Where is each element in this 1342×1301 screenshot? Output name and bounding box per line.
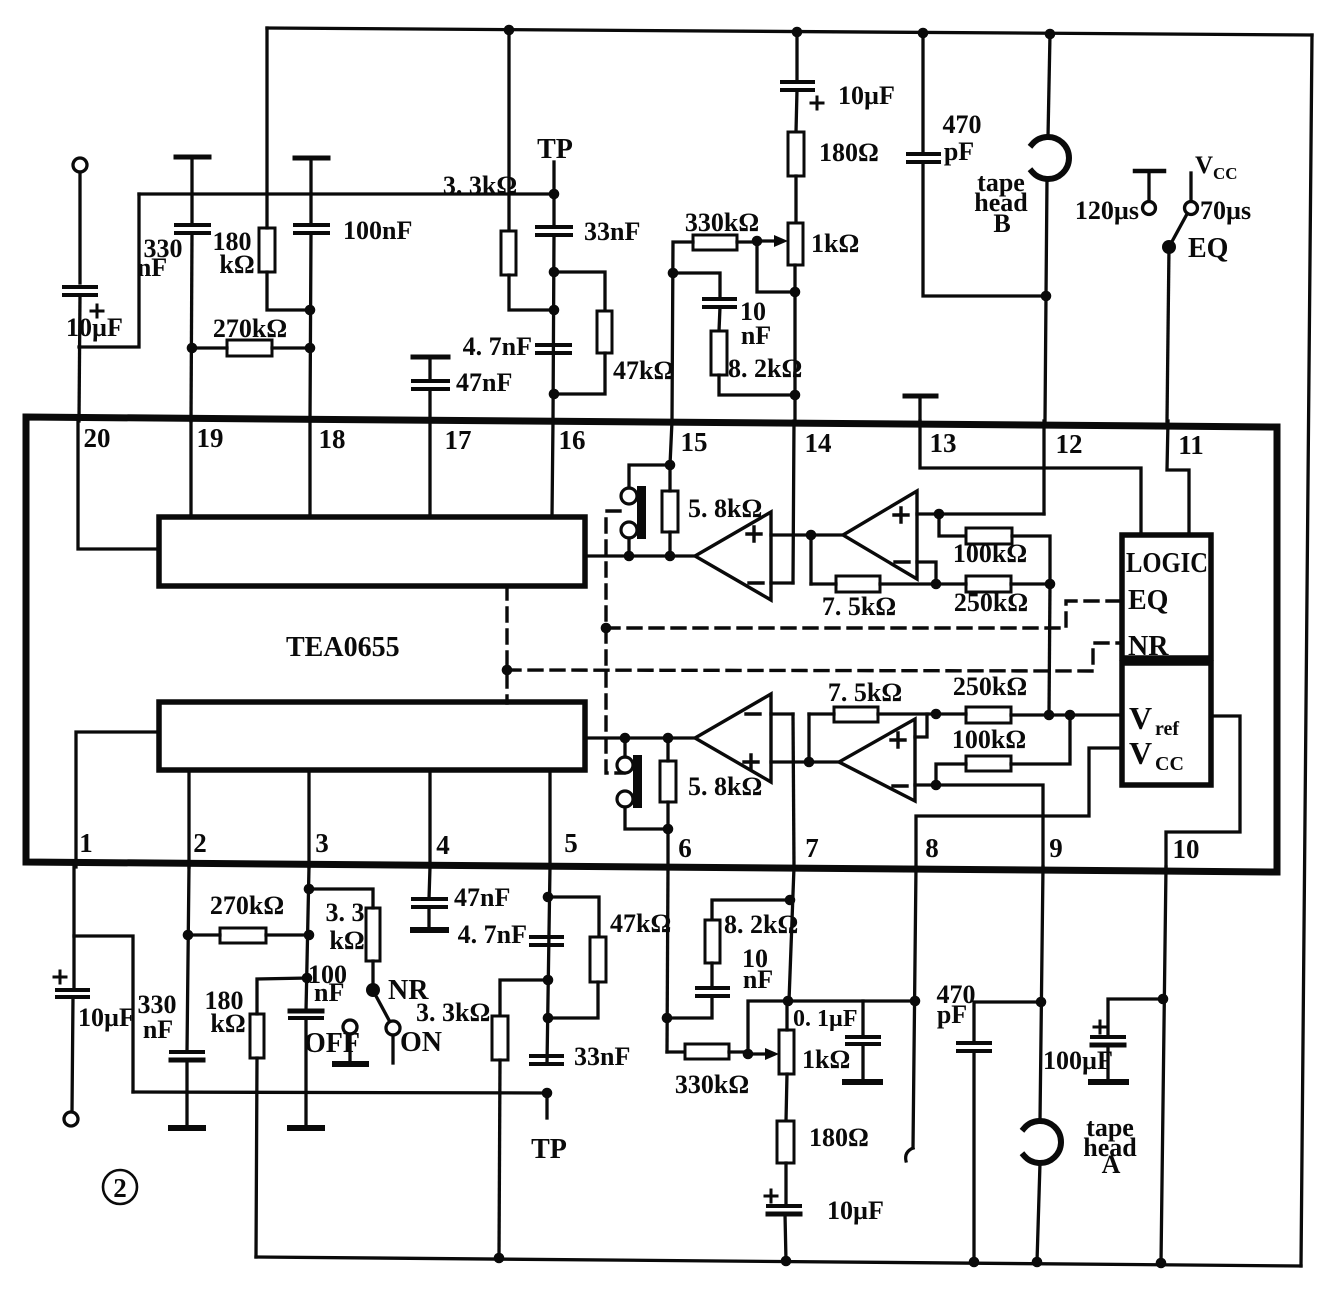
wire pin10 column outside	[1161, 867, 1166, 1263]
node dot switch B on output	[624, 551, 635, 562]
svg-text:270kΩ: 270kΩ	[213, 314, 287, 343]
resistor 3.3kOhm (B)	[501, 231, 516, 275]
capacitor 10nF (A)	[697, 988, 728, 996]
EQ switch arm	[1169, 214, 1187, 247]
switch A contact upper	[617, 757, 633, 773]
wire wiper loop (A)	[748, 1001, 787, 1054]
wire 100k B right lead	[1012, 536, 1050, 584]
label 470pF A	[937, 980, 976, 1029]
wire switch B bottom contact	[627, 538, 630, 556]
wire pin18 column	[310, 233, 311, 421]
wire pin17 column	[428, 389, 431, 421]
node dot EQ bus	[601, 623, 612, 634]
resistor 330kOhm (B)	[693, 235, 737, 250]
wire pin7 internal	[793, 714, 794, 867]
wire pin4 column outside	[429, 867, 430, 899]
resistor 47kOhm (B)	[597, 311, 612, 353]
wire pin14 internal	[793, 421, 794, 583]
resistor 47kOhm (A)	[590, 937, 606, 982]
svg-text:16: 16	[559, 425, 586, 455]
wire 47k A loop bottom	[548, 982, 598, 1018]
tape head B (gapped circle)	[1032, 137, 1069, 179]
node dot pin6/10nF A	[662, 1013, 673, 1024]
op-amp U1 (B output buffer)	[695, 512, 771, 600]
svg-text:B: B	[993, 209, 1010, 238]
svg-text:100µF: 100µF	[1043, 1046, 1113, 1075]
label 180kOhm A	[205, 986, 246, 1038]
svg-text:100kΩ: 100kΩ	[953, 539, 1027, 568]
capacitor 10uF (pin7 bottom)	[765, 1190, 800, 1214]
wire pin13 internal to LOGIC	[920, 421, 1141, 535]
svg-text:kΩ: kΩ	[329, 926, 364, 955]
capacitor 4.7nF (B)	[537, 345, 570, 353]
wire 250k A leads to Vref	[936, 714, 1122, 715]
capacitor 330nF (A)	[171, 1052, 203, 1060]
svg-text:OFF: OFF	[304, 1028, 360, 1059]
wire pin3 column outside	[306, 867, 309, 1011]
wire pin8 internal to Vcc	[916, 748, 1122, 867]
resistor 8.2kOhm (B)	[711, 331, 727, 375]
wire 330k A right lead	[729, 1052, 748, 1054]
node dot rail 470pF A	[969, 1257, 980, 1268]
label 330nF A	[138, 990, 177, 1044]
capacitor 330nF (B)	[176, 225, 209, 233]
wire 7.5k B leads	[811, 582, 936, 585]
wire 100nF A to ground	[304, 1018, 307, 1126]
node dot pin19/270k	[187, 343, 198, 354]
wire 180k top to rail	[265, 28, 268, 228]
capacitor 0.1uF	[847, 1037, 879, 1044]
wire pin7 column outside	[789, 867, 794, 1001]
svg-text:5: 5	[564, 828, 578, 858]
wire pin2 column outside	[187, 867, 189, 1052]
wire 47k A loop top	[548, 897, 599, 937]
svg-text:nF: nF	[743, 965, 773, 994]
input terminal A (open circle)	[64, 1112, 78, 1126]
svg-text:NR: NR	[1128, 631, 1169, 662]
node dot TP rail A	[542, 1088, 553, 1099]
node dot pot top (A)	[783, 996, 794, 1007]
contact circle OFF	[343, 1020, 357, 1034]
wire rail to head B	[1048, 34, 1050, 137]
svg-text:10µF: 10µF	[838, 81, 895, 110]
svg-text:nF: nF	[314, 978, 344, 1007]
svg-text:EQ: EQ	[1188, 233, 1228, 264]
node dot 3.3k A rail	[494, 1253, 505, 1264]
resistor 180Ohm (A)	[777, 1121, 794, 1163]
node dot pin15 branch	[668, 268, 679, 279]
resistor 5.8kOhm (A)	[660, 761, 676, 802]
wire 180ohm A to 10uF A2	[784, 1163, 787, 1206]
resistor 180Ohm (B)	[788, 132, 804, 176]
svg-text:3. 3: 3. 3	[326, 898, 365, 927]
switch B contact upper	[621, 488, 637, 504]
wire EQ pole to pin11	[1167, 247, 1169, 421]
svg-text:250kΩ: 250kΩ	[953, 672, 1027, 701]
ground bar below 0.1uF	[845, 1079, 880, 1085]
resistor 100kOhm (A)	[966, 756, 1011, 771]
contact circle 120us	[1143, 202, 1156, 215]
node dot 7.5k/250k (A)	[931, 709, 942, 720]
input terminal B (open circle)	[73, 158, 87, 172]
label Vref	[1129, 700, 1179, 740]
resistor 5.8kOhm (B)	[662, 491, 678, 532]
wire 3.3k A to bottom rail	[499, 1060, 500, 1258]
capacitor 47nF (A)	[413, 899, 446, 907]
wire pin6 column outside	[667, 867, 668, 1052]
signal block B (top)	[159, 517, 585, 586]
svg-text:7. 5kΩ: 7. 5kΩ	[828, 678, 902, 707]
ground bar below OFF	[335, 1061, 366, 1067]
wire 180k A top lead	[257, 978, 307, 1014]
svg-text:ref: ref	[1155, 718, 1179, 740]
node dot head B bottom	[1041, 291, 1052, 302]
op-amp U2 (B side-chain)	[843, 491, 917, 579]
svg-text:nF: nF	[143, 1015, 173, 1044]
svg-text:18: 18	[319, 424, 346, 454]
wire 0.1uF node line	[787, 999, 915, 1002]
node dot pot bottom (B)	[790, 287, 801, 298]
switch A contact lower	[617, 791, 633, 807]
wire 3.3k NR to pole	[371, 961, 374, 984]
node dot 47k A bottom	[543, 1013, 554, 1024]
node dot feedback rise (A)	[804, 757, 815, 768]
wire head B to pin12	[1045, 179, 1047, 421]
svg-text:4. 7nF: 4. 7nF	[463, 332, 532, 361]
ground bar above pin13	[905, 394, 936, 399]
resistor 8.2kOhm (A)	[705, 920, 720, 963]
wire right border	[1301, 35, 1312, 1266]
wire rail2 (TP-B rail)	[139, 192, 554, 195]
ground bar below 100nF A	[290, 1125, 322, 1131]
wire 8.2k to pin14 node (B)	[719, 375, 795, 395]
node dot pin8/0.1uF line	[910, 996, 921, 1007]
svg-text:47kΩ: 47kΩ	[613, 356, 674, 385]
wire ground to 330nF	[190, 157, 193, 225]
label Vcc (box)	[1129, 735, 1184, 775]
svg-text:13: 13	[930, 428, 957, 458]
svg-text:1kΩ: 1kΩ	[811, 229, 859, 258]
wire 8.2k A branch	[712, 900, 790, 920]
wire U3 plus line to U4 output	[771, 760, 839, 763]
wire 100k A left lead	[936, 764, 966, 785]
svg-text:4: 4	[436, 830, 450, 860]
node dot wiper (A)	[743, 1049, 754, 1060]
capacitor 10uF (input A)	[54, 971, 88, 997]
wire 47k loop bottom (B)	[554, 353, 605, 394]
node dot 7.5k/250k (B)	[931, 579, 942, 590]
wire rail to 3.3k B	[507, 30, 510, 231]
svg-text:15: 15	[681, 427, 708, 457]
svg-text:A: A	[1102, 1150, 1121, 1179]
capacitor 100uF	[1092, 1021, 1124, 1045]
svg-text:47nF: 47nF	[456, 368, 512, 397]
wire 10uF to 180ohm	[796, 90, 797, 132]
wire pin6 to 330k A	[667, 1050, 685, 1053]
node dot pin18/180k	[305, 305, 316, 316]
ground bar below 47nF A	[413, 927, 446, 933]
svg-text:100nF: 100nF	[343, 216, 412, 245]
svg-text:70µs: 70µs	[1200, 196, 1251, 225]
pot wiper arrow (B)	[757, 235, 788, 247]
wire pin1 column outside	[72, 867, 75, 988]
svg-text:10µF: 10µF	[827, 1196, 884, 1225]
capacitor 10uF (input B)	[64, 287, 103, 317]
svg-text:1: 1	[79, 828, 93, 858]
svg-text:kΩ: kΩ	[219, 250, 254, 279]
label 10nF B	[740, 297, 771, 350]
wire Vcc stem 70us	[1189, 173, 1192, 201]
wire switch A top contact	[623, 738, 626, 757]
svg-text:3: 3	[315, 828, 329, 858]
wire pin11 internal to LOGIC	[1167, 421, 1189, 535]
wire pin5 column outside	[547, 867, 550, 1064]
svg-text:CC: CC	[1213, 164, 1238, 183]
label 10nF A	[742, 944, 773, 994]
pin numbers bottom row	[79, 828, 1199, 864]
wire rail A (TP-A rail)	[133, 1092, 547, 1093]
wire pin19 column	[191, 233, 192, 421]
svg-text:10µF: 10µF	[78, 1003, 135, 1032]
node dot ref column (A)	[1044, 710, 1055, 721]
node dot wiper (B)	[752, 236, 763, 247]
svg-text:5. 8kΩ: 5. 8kΩ	[688, 494, 762, 523]
svg-text:8: 8	[925, 833, 939, 863]
svg-text:180Ω: 180Ω	[809, 1123, 869, 1152]
svg-text:pF: pF	[937, 1000, 967, 1029]
label 180kOhm B	[213, 227, 255, 279]
wire pin15 internal	[670, 421, 672, 465]
pin numbers top row	[84, 423, 1204, 460]
wire 3.3k A branch	[500, 980, 548, 1016]
svg-text:CC: CC	[1155, 753, 1184, 775]
node dot rail head A	[1032, 1257, 1043, 1268]
svg-text:270kΩ: 270kΩ	[210, 891, 284, 920]
120us contact bar	[1135, 169, 1164, 174]
wire pot A to 180ohm A	[786, 1074, 787, 1121]
svg-text:17: 17	[445, 425, 472, 455]
svg-text:330kΩ: 330kΩ	[685, 208, 759, 237]
node dot 3.3k A branch	[543, 975, 554, 986]
potentiometer 1kOhm (A)	[779, 1030, 794, 1074]
potentiometer 1kOhm (B)	[788, 223, 803, 265]
capacitor 33nF (A)	[531, 1056, 562, 1064]
svg-text:47nF: 47nF	[454, 883, 510, 912]
label 330nF B	[137, 234, 183, 282]
svg-text:8. 2kΩ: 8. 2kΩ	[728, 354, 802, 383]
wire 10uF A2 to bottom rail	[785, 1214, 786, 1261]
wire rail to 470pF B	[921, 33, 924, 154]
node dot U4 minus	[931, 780, 942, 791]
wire U4 plus stub	[915, 714, 927, 737]
ground bar below 330nF A	[171, 1125, 203, 1131]
wire 10nF A to pin6 node	[667, 996, 712, 1018]
dashed EQ control bus	[606, 511, 1122, 773]
capacitor 100nF (B)	[295, 225, 328, 233]
wire top supply rail	[267, 28, 1312, 35]
node dot 5.8k B on output	[665, 551, 676, 562]
wire ground to 47nF	[428, 357, 431, 381]
wire 5.8k B leads	[668, 465, 671, 556]
svg-text:5. 8kΩ: 5. 8kΩ	[688, 772, 762, 801]
wire 270k leads	[192, 346, 310, 349]
svg-text:19: 19	[197, 423, 224, 453]
capacitor 10uF (pin14 top)	[782, 82, 823, 109]
wire 470pF bottom to head node (B)	[923, 162, 1046, 296]
svg-text:6: 6	[678, 833, 692, 863]
node dot 250k/100k right (B)	[1045, 579, 1056, 590]
wire 3.3k B to TP node	[509, 275, 554, 310]
svg-text:10µF: 10µF	[66, 313, 123, 342]
wire 180ohm to pot	[794, 176, 797, 223]
wire 470pF A to bottom rail	[972, 1051, 975, 1262]
node dot 47k top (B)	[549, 267, 560, 278]
wire TP stub (A)	[545, 1093, 548, 1118]
wire terminal B to C 10uF	[78, 172, 81, 283]
label 470pF B	[943, 110, 982, 166]
svg-text:0. 1µF: 0. 1µF	[793, 1006, 858, 1032]
signal block A (bottom)	[159, 702, 585, 770]
node dot 8.2k/pin14 (B)	[790, 390, 801, 401]
node dot pin9/470pF A	[1036, 997, 1047, 1008]
ground bar above 330nF B	[176, 155, 209, 160]
wire reference column down	[1049, 584, 1050, 715]
wire pin6 internal	[666, 829, 669, 867]
svg-text:33nF: 33nF	[584, 217, 640, 246]
wire block A output line	[585, 736, 695, 739]
svg-text:7. 5kΩ: 7. 5kΩ	[822, 592, 896, 621]
contact circle 70us	[1185, 202, 1198, 215]
svg-text:TEA0655: TEA0655	[286, 632, 400, 663]
label Vcc switch	[1195, 152, 1238, 183]
figure number circle 2	[103, 1170, 137, 1204]
svg-text:1kΩ: 1kΩ	[802, 1045, 850, 1074]
IC TEA0655 package outline	[26, 417, 1277, 872]
node dot rail/10uF B2	[792, 27, 803, 38]
wire ground to 100nF	[309, 158, 312, 225]
wire 7.5k A leads	[809, 712, 936, 715]
node dot 3.3k/TP (B)	[549, 305, 560, 316]
switch B armature bar	[637, 486, 646, 539]
svg-text:V: V	[1129, 700, 1152, 736]
svg-text:8. 2kΩ: 8. 2kΩ	[724, 910, 798, 939]
svg-text:TP: TP	[537, 134, 573, 165]
wire pot A top lead	[785, 1001, 788, 1030]
svg-text:2: 2	[113, 1173, 127, 1203]
wire rise to 7.5k (A)	[807, 714, 810, 762]
EQ switch pole (filled dot)	[1162, 240, 1176, 254]
wire Vref output to pin10 internal	[1166, 716, 1240, 867]
node dot pin3/270k A	[304, 930, 315, 941]
wire head A to bottom rail	[1037, 1163, 1040, 1262]
ground bar below 100uF	[1091, 1079, 1126, 1085]
capacitor 33nF (B)	[537, 227, 571, 235]
wire 330k left / pin15 column	[672, 242, 693, 421]
node dot 5.8k A bottom	[663, 824, 674, 835]
wire pot bottom / pin14 column	[793, 265, 796, 421]
svg-text:11: 11	[1178, 430, 1204, 460]
node dot pin3/3.3k NR	[304, 884, 315, 895]
wire pin16 internal	[552, 421, 553, 517]
wire 270k A leads	[188, 933, 309, 936]
label 100nF A	[308, 960, 347, 1007]
svg-text:330kΩ: 330kΩ	[675, 1070, 749, 1099]
wire 8.2k A to 10nF A	[710, 963, 713, 988]
svg-text:14: 14	[805, 428, 832, 458]
resistor 330kOhm (A)	[685, 1044, 729, 1059]
wire U2 minus stub	[917, 562, 936, 584]
dashed NR control bus	[507, 586, 1122, 703]
LOGIC block	[1122, 535, 1211, 658]
wire 10nF to 8.2k (B)	[719, 307, 720, 331]
resistor 180kOhm (A)	[250, 1014, 264, 1058]
node dot rail/head B	[1045, 29, 1056, 40]
wire jog pin1 to rail A	[74, 936, 133, 1092]
svg-text:33nF: 33nF	[574, 1042, 630, 1071]
svg-text:ON: ON	[400, 1027, 442, 1058]
wire 100uF to ground	[1106, 1045, 1109, 1080]
svg-text:47kΩ: 47kΩ	[610, 909, 671, 938]
svg-text:kΩ: kΩ	[210, 1009, 245, 1038]
capacitor 470pF (A)	[958, 1043, 990, 1051]
svg-text:pF: pF	[944, 137, 974, 166]
svg-text:3. 3kΩ: 3. 3kΩ	[416, 998, 490, 1027]
svg-text:10: 10	[1173, 834, 1200, 864]
wire pin3 internal	[307, 770, 310, 867]
wire 180k A bottom to rail corner	[256, 1058, 257, 1257]
wire pin5 internal	[548, 770, 551, 867]
node dot 100k A riser	[1065, 710, 1076, 721]
resistor 250kOhm (B)	[966, 576, 1011, 592]
wire switch B top contact	[629, 465, 670, 488]
svg-text:470: 470	[943, 110, 982, 139]
wire drop to 7.5k (B)	[809, 535, 812, 584]
node dot pin10/100uF	[1158, 994, 1169, 1005]
wire rail to 10uF B2	[795, 32, 798, 82]
switch A armature bar	[633, 755, 642, 808]
wire 100k B left lead	[939, 514, 966, 536]
capacitor 4.7nF (A)	[531, 937, 562, 945]
wire switch A bottom contact	[625, 807, 668, 829]
node dot feedback drop (B)	[806, 530, 817, 541]
capacitor 100nF (A)	[290, 1011, 322, 1018]
ground bar above 100nF B	[295, 156, 328, 161]
svg-text:20: 20	[84, 423, 111, 453]
resistor 3.3kOhm (NR branch)	[366, 908, 380, 961]
resistor 3.3kOhm (A)	[492, 1016, 508, 1060]
wire TP stub (B)	[552, 162, 555, 194]
capacitor 10nF (B)	[704, 299, 735, 307]
wire U2 plus node line to pin12	[917, 512, 1044, 515]
svg-text:120µs: 120µs	[1075, 196, 1139, 225]
node dot switch A on output	[620, 733, 631, 744]
wire pin9 internal	[936, 785, 1043, 867]
wire wiper loop (B)	[757, 241, 795, 292]
wire 120us stem	[1147, 171, 1150, 201]
svg-text:TP: TP	[531, 1134, 567, 1165]
NR switch arm to ON	[376, 996, 390, 1022]
tape head A (gapped circle)	[1024, 1121, 1061, 1163]
label tape head A	[1083, 1113, 1137, 1179]
svg-text:3. 3kΩ: 3. 3kΩ	[443, 171, 517, 200]
node dot rail 10uF A2	[781, 1256, 792, 1267]
op-amp U3 (A output buffer)	[695, 694, 771, 782]
Vref / Vcc block	[1122, 663, 1211, 785]
node dot pin2/270k A	[183, 930, 194, 941]
wire 180k bottom to pin18 column	[267, 272, 310, 310]
wire 47nF A to ground	[427, 907, 430, 928]
svg-text:12: 12	[1056, 429, 1083, 459]
